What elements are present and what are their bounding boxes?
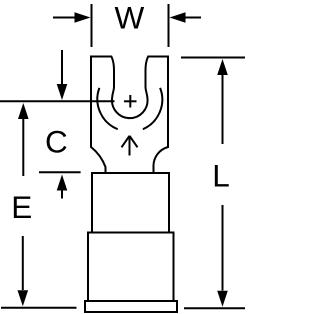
- svg-text:E: E: [11, 189, 32, 225]
- svg-text:C: C: [45, 124, 68, 160]
- svg-text:W: W: [115, 0, 145, 36]
- svg-text:L: L: [212, 157, 230, 193]
